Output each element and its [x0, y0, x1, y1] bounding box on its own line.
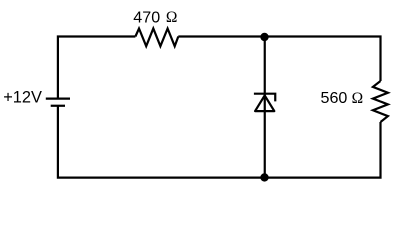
svg-text:560: 560	[321, 89, 348, 107]
svg-text:Ω: Ω	[166, 9, 178, 26]
svg-text:Ω: Ω	[352, 90, 364, 107]
svg-text:+12V: +12V	[3, 88, 42, 106]
svg-text:470: 470	[133, 8, 160, 26]
